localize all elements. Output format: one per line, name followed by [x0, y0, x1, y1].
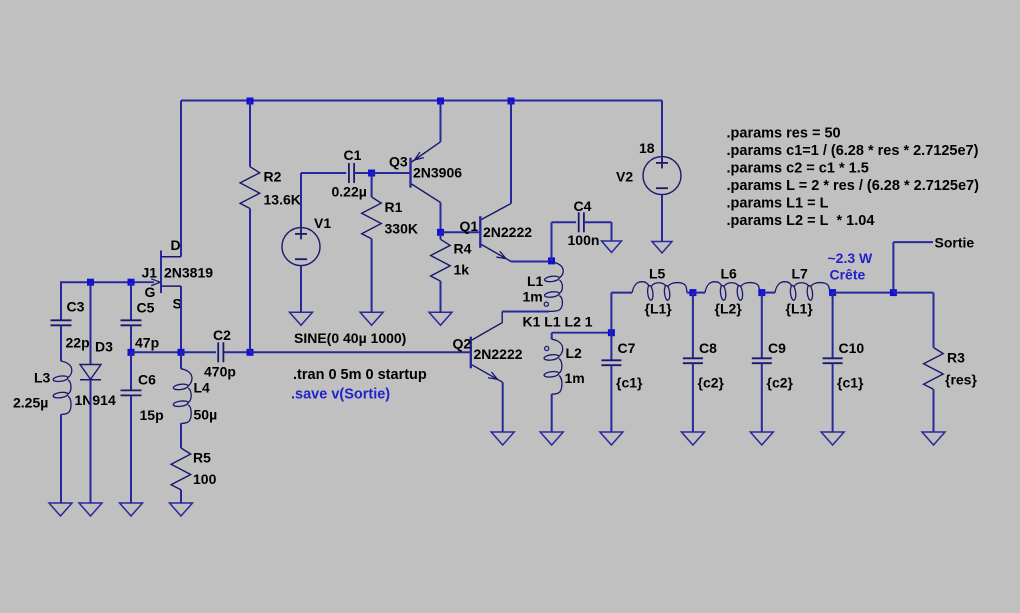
svg-text:C2: C2 — [213, 327, 231, 343]
wire C9 to ground — [761, 363, 763, 432]
voltage source V1 SINE — [282, 228, 320, 266]
svg-text:2.25µ: 2.25µ — [13, 395, 48, 411]
wire to L5 — [611, 292, 632, 294]
capacitor C8 c2 — [692, 293, 694, 359]
transistor J1 2N3819 JFET — [160, 251, 162, 294]
wire C6 top lead — [130, 352, 132, 390]
svg-text:{L1}: {L1} — [786, 301, 814, 317]
inductor L4 50u — [180, 352, 182, 369]
resistor R4 1k — [440, 232, 442, 239]
svg-text:Sortie: Sortie — [935, 235, 975, 251]
ground under C10 — [821, 432, 844, 445]
svg-text:C10: C10 — [839, 340, 865, 356]
wire L4 to R5 — [180, 423, 182, 448]
wire tap to R3 — [893, 292, 933, 294]
capacitor C7 c1 — [610, 333, 612, 361]
ground under V1 — [290, 312, 313, 325]
transistor Q2 2N2222 — [470, 337, 472, 369]
svg-text:13.6K: 13.6K — [264, 192, 301, 208]
wire C1 to node — [354, 172, 372, 174]
node junction Q3 collector / R4 / Q1 base — [437, 229, 444, 236]
svg-text:1N914: 1N914 — [75, 392, 116, 408]
wire Q3 emitter to rail — [440, 101, 442, 142]
svg-text:R2: R2 — [264, 169, 282, 185]
svg-text:.params L = 2 * res / (6.28 *: .params L = 2 * res / (6.28 * 2.7125e7) — [727, 178, 980, 194]
wire L2 bottom to ground — [551, 394, 553, 432]
wire L6 to node C — [760, 292, 762, 294]
svg-text:K1 L1 L2 1: K1 L1 L2 1 — [523, 314, 593, 330]
svg-text:1m: 1m — [523, 289, 543, 305]
svg-text:Q2: Q2 — [453, 336, 472, 352]
wire top supply rail — [181, 100, 662, 102]
wire node to Q3 base — [372, 172, 410, 174]
svg-text:L1: L1 — [527, 273, 544, 289]
node junction B — [689, 289, 696, 296]
node junction L2 / C7 / filter — [608, 329, 615, 336]
wire node to Q2 base — [250, 351, 470, 353]
capacitor C3 22p — [51, 319, 72, 321]
wire node row C5 to L4 — [131, 351, 181, 353]
svg-text:C5: C5 — [137, 300, 155, 316]
inductor L3 2.25u — [61, 361, 72, 415]
capacitor C5 47p — [121, 319, 142, 321]
ground under D3 — [79, 503, 102, 516]
wire source of J1 down — [180, 286, 182, 352]
wire R5 to ground — [180, 490, 182, 503]
node junction D — [829, 289, 836, 296]
ground under C9 — [750, 432, 773, 445]
wire V2 top from rail — [661, 101, 663, 158]
svg-text:15p: 15p — [140, 407, 164, 423]
capacitor C2 470p — [217, 342, 219, 362]
wire C5 top lead — [130, 282, 132, 320]
ground under L2 — [540, 432, 563, 445]
wire Q1 collector to rail — [510, 101, 512, 204]
svg-text:D3: D3 — [95, 339, 113, 355]
wire R3 to ground — [933, 389, 935, 432]
node junction Q1 emitter / C4 / L1 — [548, 257, 555, 264]
node junction C5/C6 — [128, 349, 135, 356]
wire C6 to ground — [130, 395, 132, 503]
wire V2 bottom to ground — [661, 195, 663, 242]
capacitor C4 100n — [578, 212, 580, 232]
wire to C2 left — [181, 351, 216, 353]
wire R2 bottom down — [249, 209, 251, 353]
resistor R3 {res} — [933, 293, 935, 348]
svg-text:100n: 100n — [568, 232, 600, 248]
svg-text:Crête: Crête — [830, 267, 866, 283]
svg-text:{c2}: {c2} — [767, 375, 794, 391]
svg-text:J1: J1 — [142, 265, 158, 281]
resistor R2 13.6K — [249, 101, 251, 167]
node junction top rail at R2 — [247, 98, 254, 105]
svg-text:50µ: 50µ — [194, 407, 218, 423]
svg-text:L3: L3 — [34, 370, 51, 386]
svg-text:R4: R4 — [454, 241, 472, 257]
wire C4 right to ground — [584, 221, 612, 223]
wire D3 top lead — [90, 282, 92, 364]
wire V1 bottom to ground — [300, 266, 302, 313]
ground under Q2 — [491, 432, 514, 445]
svg-text:{c1}: {c1} — [837, 375, 864, 391]
wire L5 to node B — [687, 292, 693, 294]
svg-text:V2: V2 — [616, 169, 633, 185]
wire C4 riser — [551, 222, 553, 261]
svg-text:.save v(Sortie): .save v(Sortie) — [291, 387, 390, 403]
node junction Sortie tap — [890, 289, 897, 296]
svg-text:{res}: {res} — [945, 372, 977, 388]
ground under C7 — [600, 432, 623, 445]
inductor L2 1m secondary — [552, 332, 612, 334]
wire L1 bottom to Q2 collector — [502, 311, 549, 313]
svg-text:{L2}: {L2} — [715, 301, 743, 317]
svg-text:{c1}: {c1} — [616, 375, 643, 391]
wire Q1 emitter right — [511, 261, 552, 263]
svg-text:.params c2 = c1 * 1.5: .params c2 = c1 * 1.5 — [727, 161, 869, 177]
svg-text:1m: 1m — [565, 370, 585, 386]
svg-text:.params L1 = L: .params L1 = L — [727, 196, 829, 212]
svg-text:C4: C4 — [574, 198, 592, 214]
node junction at L4/source — [178, 349, 185, 356]
svg-text:SINE(0 40µ 1000): SINE(0 40µ 1000) — [294, 330, 406, 346]
svg-text:Q1: Q1 — [460, 218, 479, 234]
svg-text:18: 18 — [639, 140, 655, 156]
ground under L3 — [49, 503, 72, 516]
svg-text:100: 100 — [193, 471, 217, 487]
wire C10 to ground — [832, 363, 834, 432]
inductor L6 {L2} — [693, 292, 705, 294]
diode D3 1N914 — [80, 365, 101, 380]
svg-text:{c2}: {c2} — [698, 375, 725, 391]
node junction C — [758, 289, 765, 296]
ground under C6 — [120, 503, 143, 516]
capacitor C6 15p — [121, 389, 142, 391]
capacitor C1 0.22u — [348, 163, 350, 183]
wire node D to Sortie tap — [833, 292, 894, 294]
node junction at C5 top — [128, 279, 135, 286]
wire C5 to node — [130, 325, 132, 352]
voltage source V2 18 — [643, 157, 681, 195]
svg-text:2N3906: 2N3906 — [413, 165, 462, 181]
svg-text:L4: L4 — [194, 380, 211, 396]
wire L3 to ground — [60, 414, 62, 503]
wire node to Q1 base — [441, 231, 480, 233]
ground under C4 — [602, 241, 622, 253]
wire Q2 emitter down to ground — [502, 382, 504, 432]
wire Q3 collector down — [440, 203, 442, 233]
svg-text:.params res = 50: .params res = 50 — [727, 126, 841, 142]
wire C8 to ground — [692, 363, 694, 432]
svg-text:V1: V1 — [314, 215, 331, 231]
node junction top rail at Q1 collector — [508, 98, 515, 105]
capacitor C10 c1 — [832, 293, 834, 359]
svg-text:C9: C9 — [768, 340, 786, 356]
svg-text:R5: R5 — [193, 450, 211, 466]
wire node A riser — [610, 293, 612, 333]
inductor L1 1m primary — [549, 262, 564, 311]
wire L7 to node D — [830, 292, 833, 294]
wire Sortie riser — [892, 242, 894, 293]
svg-text:R3: R3 — [947, 350, 965, 366]
svg-text:{L1}: {L1} — [645, 301, 673, 317]
ground under R4 — [429, 312, 452, 325]
wire V1 top riser — [300, 173, 302, 228]
svg-text:D: D — [171, 237, 181, 253]
svg-text:C1: C1 — [344, 147, 362, 163]
svg-text:R1: R1 — [385, 199, 403, 215]
node junction top rail at Q3 emitter — [437, 98, 444, 105]
svg-text:Q3: Q3 — [389, 154, 408, 170]
ground under C8 — [681, 432, 704, 445]
svg-text:.tran 0 5m 0 startup: .tran 0 5m 0 startup — [293, 367, 427, 383]
wire C2 right to node — [223, 351, 250, 353]
ground under R3 — [922, 432, 945, 445]
svg-text:L2: L2 — [566, 345, 583, 361]
ground under V2 — [652, 242, 672, 254]
svg-text:L5: L5 — [649, 266, 666, 282]
ground under R5 — [170, 503, 193, 516]
svg-text:1k: 1k — [454, 262, 470, 278]
ground under R1 — [360, 312, 383, 325]
wire C7 to ground — [610, 365, 612, 432]
resistor R1 330K — [371, 173, 373, 197]
wire V1 to C1 — [301, 172, 346, 174]
node junction C1/R1/Q3 base — [368, 170, 375, 177]
wire gate net left segment — [61, 281, 131, 283]
svg-text:C3: C3 — [67, 299, 85, 315]
wire R4 to ground — [440, 281, 442, 312]
resistor R5 100 — [171, 448, 191, 490]
svg-text:G: G — [145, 284, 156, 300]
svg-text:22p: 22p — [66, 335, 90, 351]
capacitor C9 c2 — [761, 293, 763, 359]
svg-text:C6: C6 — [138, 372, 156, 388]
node junction at D3 top — [87, 279, 94, 286]
svg-text:0.22µ: 0.22µ — [332, 184, 367, 200]
svg-text:470p: 470p — [204, 364, 236, 380]
wire C3 to L3 — [60, 325, 62, 361]
svg-text:47p: 47p — [135, 335, 159, 351]
inductor L5 {L1} — [632, 282, 687, 293]
svg-text:2N3819: 2N3819 — [164, 265, 213, 281]
wire D3 to ground — [90, 380, 92, 503]
svg-text:~2.3 W: ~2.3 W — [828, 250, 874, 266]
svg-text:.params L2 = L * 1.04: .params L2 = L * 1.04 — [727, 213, 875, 229]
svg-text:330K: 330K — [385, 221, 418, 237]
svg-text:C8: C8 — [699, 340, 717, 356]
wire drain riser of J1 — [180, 101, 182, 257]
node junction at R2 bottom — [247, 349, 254, 356]
transistor Q1 2N2222 — [479, 216, 481, 248]
wire C3 top lead — [60, 281, 62, 320]
svg-text:C7: C7 — [618, 340, 636, 356]
svg-text:2N2222: 2N2222 — [483, 224, 532, 240]
wire R1 to ground — [371, 239, 373, 312]
inductor L7 {L1} — [762, 292, 775, 294]
svg-text:2N2222: 2N2222 — [474, 346, 523, 362]
svg-text:L7: L7 — [792, 266, 809, 282]
svg-text:.params c1=1 / (6.28 * res * 2: .params c1=1 / (6.28 * res * 2.7125e7) — [727, 143, 979, 159]
transistor Q3 2N3906 PNP — [409, 158, 411, 188]
svg-text:L6: L6 — [721, 266, 738, 282]
